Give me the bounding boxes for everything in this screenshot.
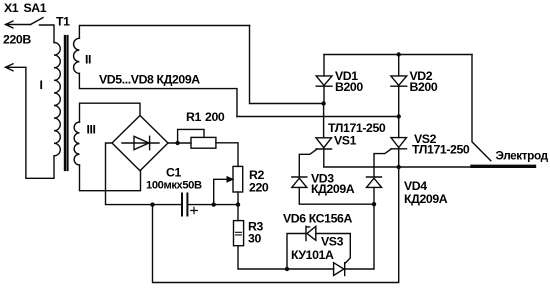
wire winding III bottom to bridge [80, 165, 141, 191]
wire R1 right to R2 top [216, 143, 238, 167]
wire winding II top rail [79, 26, 249, 39]
wire VD6 branch left [287, 234, 305, 270]
transformer T1 primary winding I [54, 43, 60, 156]
thyristor VS1 [316, 138, 332, 149]
node junction dot VS2 anode [397, 114, 401, 118]
bridge rectifier VD5-VD8 diamond [112, 116, 168, 171]
diode VD4 [367, 177, 382, 187]
wire VS2 anode [398, 117, 400, 138]
electrode output bar [472, 165, 535, 168]
node junction dot R2 bottom [236, 202, 240, 206]
svg-text:R1: R1 [186, 110, 201, 124]
node junction dot VD2 top [397, 52, 401, 56]
node junction dot R2 wiper [212, 202, 216, 206]
resistor R3 power marks [236, 232, 242, 235]
thyristor VS2 [391, 138, 407, 149]
svg-text:ТЛ171-250: ТЛ171-250 [412, 143, 470, 157]
transformer T1 core [65, 36, 68, 170]
wire VS1 cathode to output rail [324, 149, 472, 167]
diode VD1 [316, 55, 332, 104]
wire winding III top to bridge [80, 103, 141, 122]
svg-text:Электрод: Электрод [496, 149, 549, 163]
wire winding II bottom to corner [79, 73, 237, 116]
wire VS1 anode [323, 104, 325, 138]
wire VD3 bottom to node [299, 187, 374, 204]
wire R1 tap loop [178, 129, 204, 143]
wire R2 bottom lead [237, 192, 239, 205]
node junction dot VS2 cathode rail [397, 165, 401, 169]
svg-text:III: III [87, 123, 96, 137]
connector X1 arrow top [6, 21, 31, 28]
svg-text:VS3: VS3 [321, 235, 344, 249]
connector X1 arrow bottom [6, 64, 26, 71]
transformer T1 secondary winding II [74, 38, 80, 73]
wire VS3 anode [287, 268, 334, 270]
svg-text:VD6 КС156А: VD6 КС156А [283, 212, 352, 226]
wire C1 right to R2 bottom node [188, 204, 238, 206]
svg-text:В200: В200 [335, 80, 363, 94]
svg-text:VD5...VD8 КД209А: VD5...VD8 КД209А [99, 73, 200, 87]
zener diode VD6 [306, 226, 316, 240]
svg-text:220В: 220В [3, 33, 31, 47]
wire SA1 to T1 primary top [40, 25, 55, 43]
svg-text:VS1: VS1 [334, 134, 357, 148]
node junction dot R1 left [175, 141, 179, 145]
transformer T1 secondary winding III [74, 122, 79, 165]
node junction dot VD3 VD4 VS3 [372, 202, 376, 206]
wire VD6 cathode to VS3 gate [316, 234, 351, 264]
svg-text:В200: В200 [410, 80, 438, 94]
wire VS2 cathode to rail [398, 149, 400, 167]
svg-text:VD4: VD4 [404, 179, 427, 193]
svg-text:T1: T1 [56, 15, 70, 29]
bridge rectifier inner diode [122, 136, 159, 149]
diode VD2 [391, 55, 407, 117]
node junction dot C1 left [150, 202, 154, 206]
node junction dot VS3 anode [285, 267, 289, 271]
wire anode rail to VS2 node [237, 116, 399, 118]
wire R3 bottom to VS3 anode node [238, 246, 287, 269]
svg-text:X1: X1 [4, 1, 19, 15]
wire top rail right down to electrode [472, 55, 491, 161]
capacitor C1 plus sign [191, 207, 198, 213]
svg-text:II: II [85, 53, 91, 67]
potentiometer R2 body [233, 166, 243, 192]
resistor R3 body [234, 221, 244, 246]
wire VS3 cathode up to VD3 VD4 node [345, 204, 374, 269]
wire VD1 VD2 top rail [324, 54, 472, 56]
wire VD4 bottom lead [373, 187, 375, 204]
diode VD3 [292, 177, 307, 187]
svg-text:220: 220 [249, 181, 269, 195]
wire top rail down to VD1 node [250, 26, 324, 104]
svg-text:30: 30 [248, 232, 261, 246]
switch SA1 blade [31, 18, 44, 25]
wire VS2 node down to bottom bypass [153, 167, 399, 283]
capacitor C1 plates [182, 194, 187, 216]
potentiometer R2 wiper arrow [214, 177, 233, 205]
node junction dot VD1 VS1 [321, 101, 325, 105]
wire VD3 cathode to VS1 gate [299, 150, 316, 178]
svg-text:C1: C1 [166, 166, 181, 180]
svg-text:КД209А: КД209А [311, 182, 355, 196]
wire R3 top lead [237, 205, 239, 221]
svg-text:КД209А: КД209А [404, 192, 448, 206]
thyristor VS3 [334, 263, 345, 276]
svg-text:200: 200 [205, 110, 225, 124]
wire bridge plus to R1 [168, 142, 191, 144]
svg-text:100мкх50В: 100мкх50В [146, 179, 202, 191]
svg-text:I: I [40, 78, 43, 92]
resistor R1 body [191, 137, 216, 148]
svg-text:SA1: SA1 [24, 1, 47, 15]
wire bridge minus to bottom rail [106, 143, 182, 205]
svg-text:КУ101А: КУ101А [291, 248, 334, 262]
wire primary bottom loop [26, 67, 54, 178]
wire VD4 cathode to VS2 gate [374, 149, 391, 177]
